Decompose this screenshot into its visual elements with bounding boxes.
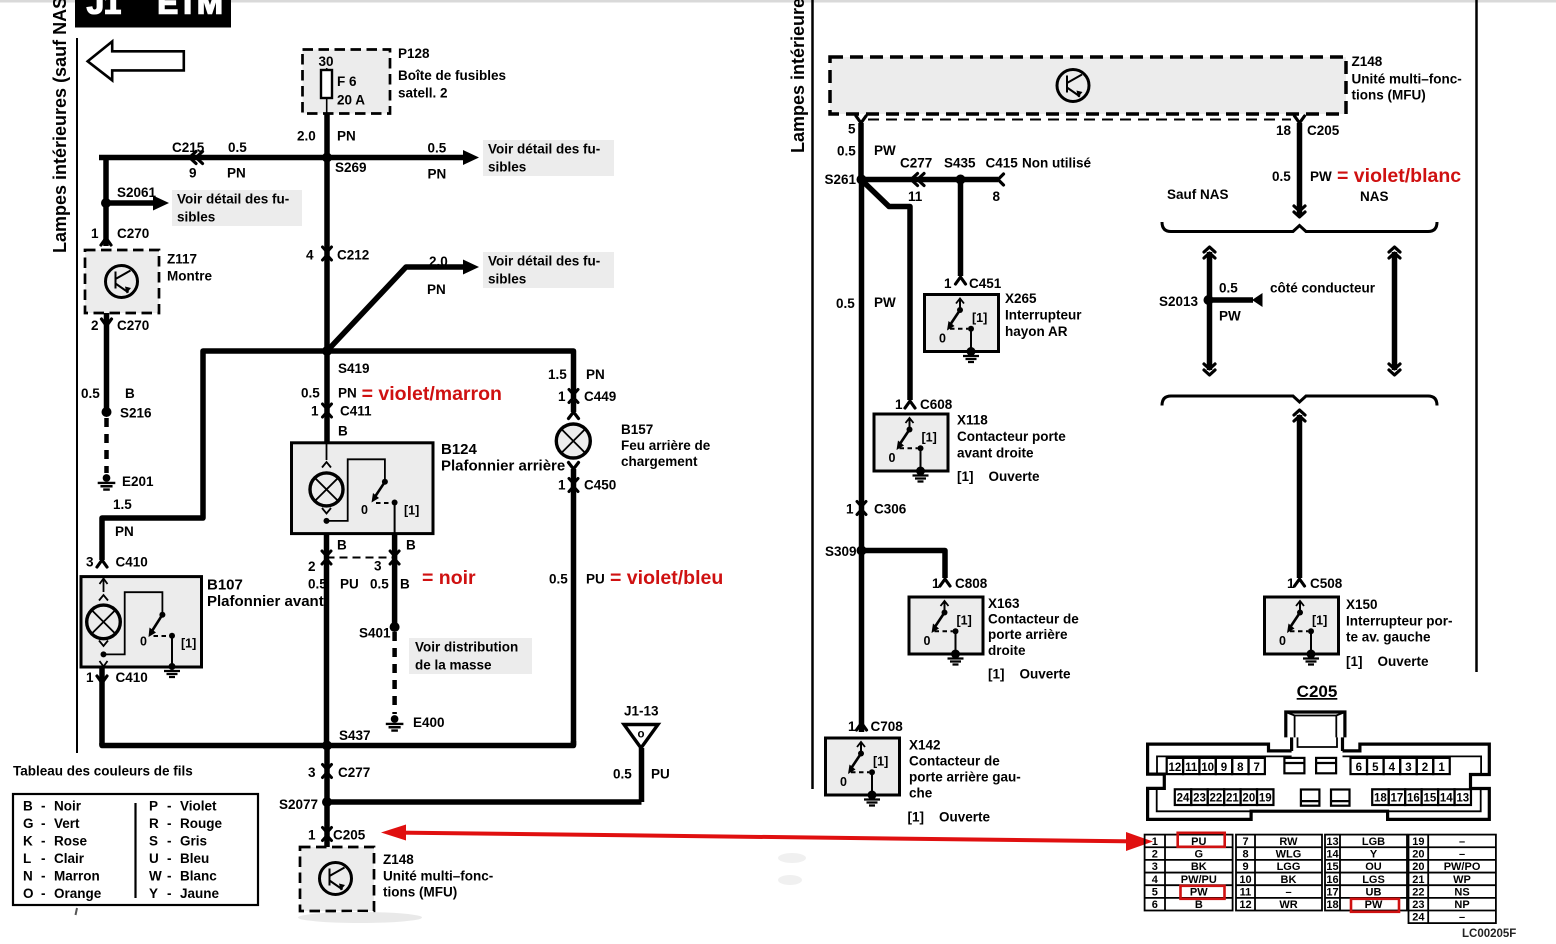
svg-text:Z148: Z148 bbox=[1352, 54, 1383, 69]
wire C449 to lamp B157 bbox=[571, 400, 577, 412]
svg-text:6: 6 bbox=[1152, 899, 1158, 911]
svg-text:1: 1 bbox=[895, 397, 903, 412]
svg-text:S2013: S2013 bbox=[1159, 294, 1199, 309]
svg-text:C411: C411 bbox=[340, 404, 372, 419]
switch box X142 (Contacteur de porte arriere gauche) bbox=[826, 738, 900, 795]
wire S435 down to X265 bbox=[958, 180, 964, 277]
wire S2061 down to connector C270 pin 1 bbox=[103, 203, 109, 246]
svg-text:3: 3 bbox=[1405, 762, 1411, 774]
svg-text:5: 5 bbox=[848, 122, 856, 137]
svg-text:17: 17 bbox=[1391, 793, 1404, 805]
svg-text:S2077: S2077 bbox=[279, 797, 318, 812]
right section right border rule bbox=[1475, 0, 1478, 672]
svg-text:LGS: LGS bbox=[1362, 874, 1385, 886]
svg-text:E400: E400 bbox=[413, 715, 445, 730]
svg-text:J1-13: J1-13 bbox=[624, 704, 659, 719]
svg-text:24: 24 bbox=[1177, 793, 1190, 805]
connector C708 pin 1 bbox=[857, 723, 867, 730]
svg-text:0.5: 0.5 bbox=[370, 577, 389, 592]
svg-text:F 6: F 6 bbox=[337, 74, 357, 89]
svg-text:Montre: Montre bbox=[167, 269, 212, 284]
wire bracket to X150 (C508) bbox=[1294, 410, 1305, 421]
svg-text:5: 5 bbox=[1372, 762, 1379, 774]
svg-text:ETM: ETM bbox=[157, 0, 222, 21]
B107 internal lamp bbox=[103, 579, 105, 592]
wire pin5 down to S261 (0.5 PW) bbox=[858, 123, 864, 180]
svg-text:PW: PW bbox=[874, 295, 896, 310]
svg-text:C270: C270 bbox=[117, 226, 149, 241]
svg-text:3: 3 bbox=[308, 765, 316, 780]
svg-text:-: - bbox=[167, 869, 172, 884]
svg-text:1: 1 bbox=[848, 719, 856, 734]
svg-text:C410: C410 bbox=[116, 670, 148, 685]
svg-text:21: 21 bbox=[1412, 874, 1424, 886]
wire S261 right through C277 / S435 to C415 bbox=[862, 177, 999, 183]
note box: Voir detail des fusibles (bottom) bbox=[483, 252, 614, 288]
svg-text:PW: PW bbox=[1190, 886, 1208, 898]
lamp unit B124 Plafonnier arriere bbox=[292, 443, 434, 534]
connector C410 pin 3 bbox=[97, 560, 107, 567]
wire S419 down to B124 (0.5 PN) bbox=[324, 351, 330, 443]
svg-text:2: 2 bbox=[1422, 762, 1428, 774]
svg-text:20: 20 bbox=[1242, 793, 1255, 805]
svg-text:20 A: 20 A bbox=[337, 93, 365, 108]
svg-text:-: - bbox=[41, 834, 46, 849]
svg-text:0: 0 bbox=[1279, 634, 1286, 648]
svg-text:14: 14 bbox=[1440, 793, 1453, 805]
svg-text:30: 30 bbox=[318, 54, 333, 69]
svg-text:C215: C215 bbox=[172, 140, 205, 155]
svg-text:13: 13 bbox=[1326, 836, 1338, 848]
svg-text:S437: S437 bbox=[339, 728, 371, 743]
svg-text:16: 16 bbox=[1407, 793, 1420, 805]
svg-text:E201: E201 bbox=[122, 474, 154, 489]
svg-text:C212: C212 bbox=[337, 248, 369, 263]
X142 (Contacteur de porte arriere gauche) internal contacts bbox=[860, 743, 862, 753]
clock unit Z117 Montre bbox=[85, 250, 159, 313]
svg-text:[1] Ouverte: [1] Ouverte bbox=[908, 810, 991, 825]
svg-text:PU: PU bbox=[586, 572, 605, 587]
svg-text:0.5: 0.5 bbox=[549, 572, 568, 587]
wire S261 diagonal to X118 drop bbox=[862, 180, 911, 400]
svg-text:te av. gauche: te av. gauche bbox=[1346, 630, 1431, 645]
svg-text:18: 18 bbox=[1374, 793, 1387, 805]
svg-text:B: B bbox=[400, 577, 410, 592]
svg-text:Z117: Z117 bbox=[167, 252, 197, 267]
svg-text:[1]: [1] bbox=[404, 504, 419, 518]
svg-text:11: 11 bbox=[1185, 762, 1198, 774]
X163 (Contacteur de porte arriere droite) internal contacts bbox=[944, 602, 946, 612]
svg-text:C205: C205 bbox=[333, 828, 366, 843]
svg-text:1: 1 bbox=[1438, 762, 1445, 774]
B124 pin wires below bbox=[324, 534, 330, 746]
svg-text:Lampes intérieures: Lampes intérieures bbox=[788, 0, 808, 153]
svg-text:1: 1 bbox=[558, 478, 566, 493]
svg-text:PN: PN bbox=[227, 166, 246, 181]
svg-text:0: 0 bbox=[889, 451, 896, 465]
svg-text:C410: C410 bbox=[116, 555, 148, 570]
svg-text:3: 3 bbox=[86, 555, 94, 570]
title block J1 ETM bbox=[75, 0, 231, 28]
svg-text:PW/PO: PW/PO bbox=[1444, 861, 1481, 873]
svg-text:1: 1 bbox=[86, 670, 94, 685]
svg-text:PN: PN bbox=[428, 167, 447, 182]
bottom bus wire (B107/B157 to S437) bbox=[102, 741, 574, 746]
svg-text:S2061: S2061 bbox=[117, 185, 157, 200]
svg-text:X163: X163 bbox=[988, 596, 1020, 611]
svg-text:P128: P128 bbox=[398, 46, 430, 61]
svg-text:4: 4 bbox=[1152, 874, 1159, 886]
svg-text:B157: B157 bbox=[621, 422, 653, 437]
svg-text:2: 2 bbox=[91, 318, 99, 333]
C205 pin table bbox=[1145, 835, 1496, 924]
svg-text:Voir détail des fu-: Voir détail des fu- bbox=[177, 192, 289, 207]
svg-text:PU: PU bbox=[340, 577, 359, 592]
svg-text:= violet/bleu: = violet/bleu bbox=[610, 567, 723, 589]
svg-text:Tableau des couleurs de fils: Tableau des couleurs de fils bbox=[13, 764, 193, 779]
big hollow arrow pointing left bbox=[88, 42, 184, 81]
connector C205 pin 1 bbox=[323, 828, 332, 841]
svg-text:Blanc: Blanc bbox=[180, 869, 217, 884]
node S2013 with stub arrow (cote conducteur) bbox=[1204, 295, 1214, 305]
svg-text:10: 10 bbox=[1239, 874, 1251, 886]
svg-text:0: 0 bbox=[840, 775, 847, 789]
switch box X118 (Contacteur porte avant droite) bbox=[874, 414, 948, 471]
svg-text:9: 9 bbox=[189, 166, 197, 181]
svg-text:Bleu: Bleu bbox=[180, 851, 209, 866]
svg-text:Unité multi–fonc-: Unité multi–fonc- bbox=[1352, 72, 1462, 87]
svg-text:1: 1 bbox=[558, 389, 566, 404]
svg-text:2.0: 2.0 bbox=[429, 254, 448, 269]
arrow wire to "Voir detail des fusibles" (top) bbox=[327, 155, 463, 161]
node S2077 with wire to J1-13 drop bbox=[322, 797, 332, 807]
svg-text:0.5: 0.5 bbox=[837, 144, 856, 159]
svg-text:Y: Y bbox=[1370, 848, 1378, 860]
stray tick mark bbox=[76, 908, 78, 915]
connector C306 pin 1 (inline) bbox=[857, 502, 866, 515]
node S2061 with arrow to note bbox=[101, 198, 111, 208]
svg-text:hayon AR: hayon AR bbox=[1005, 324, 1068, 339]
svg-text:12: 12 bbox=[1239, 899, 1251, 911]
ground symbol of X163 (Contacteur de porte arriere droite) bbox=[951, 650, 960, 659]
svg-text:LC00205F: LC00205F bbox=[1462, 928, 1516, 940]
svg-text:PW: PW bbox=[1310, 169, 1332, 184]
svg-text:8: 8 bbox=[1237, 762, 1244, 774]
svg-text:0: 0 bbox=[939, 332, 946, 346]
connector C212 pin 4 bbox=[323, 247, 332, 260]
svg-text:C306: C306 bbox=[874, 502, 907, 517]
svg-text:Sauf NAS: Sauf NAS bbox=[1167, 187, 1229, 202]
svg-text:S435: S435 bbox=[944, 156, 976, 171]
svg-text:G: G bbox=[1195, 848, 1204, 860]
svg-text:PW: PW bbox=[1219, 309, 1241, 324]
svg-text:[1] Ouverte: [1] Ouverte bbox=[957, 469, 1040, 484]
X265 (Interrupteur hayon AR) internal contacts bbox=[959, 300, 961, 310]
svg-text:X118: X118 bbox=[957, 413, 988, 428]
svg-text:B: B bbox=[1195, 899, 1203, 911]
connector C411 pin 1 bbox=[323, 404, 332, 417]
svg-text:NP: NP bbox=[1454, 899, 1469, 911]
svg-text:U: U bbox=[149, 851, 159, 866]
switch box X265 (Interrupteur hayon AR) bbox=[925, 295, 999, 352]
svg-text:22: 22 bbox=[1412, 886, 1424, 898]
switch box X163 (Contacteur de porte arriere droite) bbox=[909, 597, 983, 654]
svg-text:S216: S216 bbox=[120, 406, 152, 421]
ground symbol of X142 (Contacteur de porte arriere gauche) bbox=[868, 791, 877, 800]
svg-text:Lampes intérieures (sauf NAS): Lampes intérieures (sauf NAS) bbox=[50, 0, 70, 253]
ground symbol of X118 (Contacteur porte avant droite) bbox=[916, 467, 925, 476]
svg-text:WR: WR bbox=[1279, 899, 1297, 911]
svg-text:0.5: 0.5 bbox=[228, 140, 247, 155]
svg-text:Interrupteur por-: Interrupteur por- bbox=[1346, 614, 1453, 629]
svg-text:C415: C415 bbox=[986, 156, 1019, 171]
svg-text:1: 1 bbox=[846, 502, 854, 517]
svg-text:Plafonnier arrière: Plafonnier arrière bbox=[441, 458, 565, 475]
svg-text:Marron: Marron bbox=[54, 869, 100, 884]
svg-text:C277: C277 bbox=[900, 156, 932, 171]
B124 internal switch bbox=[327, 459, 385, 521]
svg-text:WP: WP bbox=[1453, 874, 1471, 886]
svg-text:porte arrière gau-: porte arrière gau- bbox=[909, 770, 1021, 785]
connector C415 pin 8 (unused end) bbox=[998, 174, 1004, 185]
svg-text:P: P bbox=[149, 799, 158, 814]
svg-text:1: 1 bbox=[1152, 836, 1158, 848]
svg-text:X265: X265 bbox=[1005, 291, 1037, 306]
ground E201 bbox=[103, 474, 111, 482]
svg-text:19: 19 bbox=[1259, 793, 1272, 805]
svg-text:15: 15 bbox=[1423, 793, 1436, 805]
svg-text:C450: C450 bbox=[584, 478, 616, 493]
svg-text:15: 15 bbox=[1326, 861, 1338, 873]
Z148 pin 5 connector bbox=[856, 116, 866, 123]
wire S419 top run to B157 branch bbox=[327, 351, 574, 398]
svg-text:1: 1 bbox=[91, 226, 99, 241]
svg-text:1: 1 bbox=[1287, 576, 1295, 591]
svg-text:NS: NS bbox=[1454, 886, 1469, 898]
svg-text:[1]: [1] bbox=[922, 431, 937, 445]
svg-text:porte arrière: porte arrière bbox=[988, 627, 1068, 642]
connector C411 pins 2 and 3 (dashed link) bbox=[327, 557, 395, 559]
svg-text:de la masse: de la masse bbox=[415, 658, 492, 673]
C205 pin cavities row 1 bbox=[1167, 758, 1450, 774]
svg-text:S269: S269 bbox=[335, 160, 367, 175]
switch box X150 (Interrupteur porte av. gauche) bbox=[1265, 597, 1339, 654]
svg-text:C451: C451 bbox=[969, 276, 1002, 291]
svg-text:9: 9 bbox=[1221, 762, 1227, 774]
svg-text:X150: X150 bbox=[1346, 597, 1378, 612]
B107 internal ground bbox=[169, 663, 176, 670]
svg-text:BK: BK bbox=[1281, 874, 1297, 886]
svg-text:18: 18 bbox=[1276, 123, 1292, 138]
svg-text:sibles: sibles bbox=[488, 272, 526, 287]
svg-text:Y: Y bbox=[149, 886, 158, 901]
svg-text:S: S bbox=[149, 834, 158, 849]
ground E400 bbox=[391, 715, 399, 723]
svg-text:0.5: 0.5 bbox=[428, 141, 447, 156]
wire S437 down to Z148 via C277/S2077/C205 bbox=[324, 746, 330, 848]
svg-text:7: 7 bbox=[1254, 762, 1260, 774]
svg-text:0: 0 bbox=[361, 503, 368, 517]
svg-text:22: 22 bbox=[1210, 793, 1223, 805]
svg-text:-: - bbox=[41, 799, 46, 814]
svg-text:B: B bbox=[337, 538, 347, 553]
left section border rule bbox=[76, 38, 78, 753]
svg-text:20: 20 bbox=[1412, 861, 1424, 873]
svg-text:PU: PU bbox=[651, 767, 670, 782]
lamp unit B107 Plafonnier avant bbox=[81, 577, 202, 667]
svg-text:L: L bbox=[23, 851, 31, 866]
svg-text:che: che bbox=[909, 786, 933, 801]
svg-text:10: 10 bbox=[1201, 762, 1214, 774]
svg-text:-: - bbox=[41, 816, 46, 831]
connector C270 pin 1 bbox=[101, 238, 111, 245]
svg-text:-: - bbox=[41, 869, 46, 884]
svg-text:o: o bbox=[637, 729, 644, 741]
svg-text:LGB: LGB bbox=[1362, 836, 1385, 848]
node S401 bbox=[390, 622, 400, 632]
svg-text:W: W bbox=[149, 869, 162, 884]
svg-text:17: 17 bbox=[1326, 886, 1338, 898]
svg-text:WLG: WLG bbox=[1276, 848, 1302, 860]
svg-text:[1] Ouverte: [1] Ouverte bbox=[1346, 654, 1429, 669]
svg-text:0.5: 0.5 bbox=[1272, 169, 1291, 184]
dashed wire S401 to ground E400 bbox=[392, 632, 397, 714]
svg-text:PW: PW bbox=[874, 143, 896, 158]
svg-text:PN: PN bbox=[115, 524, 134, 539]
svg-text:Jaune: Jaune bbox=[180, 886, 220, 901]
svg-text:PW: PW bbox=[1365, 899, 1383, 911]
MFU unit Z148 (top bar) bbox=[830, 57, 1346, 114]
svg-text:1: 1 bbox=[311, 404, 319, 419]
note box: Voir detail des fusibles (top) bbox=[483, 140, 614, 176]
svg-text:0.5: 0.5 bbox=[1219, 281, 1238, 296]
connector C270 pin 2 bbox=[104, 313, 110, 410]
B124 internal lamp bbox=[326, 443, 328, 460]
svg-text:Clair: Clair bbox=[54, 851, 85, 866]
svg-text:[1] Ouverte: [1] Ouverte bbox=[988, 667, 1071, 682]
svg-text:S261: S261 bbox=[825, 172, 857, 187]
svg-text:-: - bbox=[167, 799, 172, 814]
svg-text:-: - bbox=[167, 816, 172, 831]
wire horizontal from corner to S269 with connector C215 bbox=[99, 158, 327, 204]
svg-text:sibles: sibles bbox=[488, 160, 526, 175]
svg-text:Contacteur de: Contacteur de bbox=[988, 612, 1079, 627]
svg-text:Contacteur de: Contacteur de bbox=[909, 754, 1000, 769]
svg-text:Vert: Vert bbox=[54, 816, 80, 831]
svg-text:Noir: Noir bbox=[54, 799, 82, 814]
page top grey strip bbox=[0, 0, 1556, 3]
X118 (Contacteur porte avant droite) internal contacts bbox=[909, 419, 911, 429]
svg-text:0.5: 0.5 bbox=[301, 386, 320, 401]
node S419 bbox=[322, 346, 332, 356]
svg-text:-: - bbox=[167, 851, 172, 866]
svg-text:24: 24 bbox=[1412, 912, 1425, 924]
svg-text:Non utilisé: Non utilisé bbox=[1022, 156, 1091, 171]
svg-text:Feu arrière de: Feu arrière de bbox=[621, 438, 711, 453]
svg-text:Rouge: Rouge bbox=[180, 816, 222, 831]
connector C808 pin 1 bbox=[940, 579, 950, 586]
node S437 bbox=[322, 741, 332, 751]
svg-text:4: 4 bbox=[306, 248, 314, 263]
svg-text:PN: PN bbox=[338, 386, 357, 401]
B107 internal switch bbox=[104, 592, 163, 654]
svg-text:–: – bbox=[1285, 886, 1291, 898]
connector C410 pin 1 bbox=[97, 676, 107, 683]
svg-text:R: R bbox=[149, 816, 159, 831]
svg-text:Z148: Z148 bbox=[383, 852, 414, 867]
svg-text:0.5: 0.5 bbox=[613, 767, 632, 782]
svg-text:avant droite: avant droite bbox=[957, 446, 1034, 461]
svg-text:C508: C508 bbox=[1310, 576, 1343, 591]
svg-text:1: 1 bbox=[932, 576, 940, 591]
svg-text:11: 11 bbox=[1240, 886, 1252, 898]
ground symbol of X265 (Interrupteur hayon AR) bbox=[967, 347, 976, 356]
svg-text:= noir: = noir bbox=[422, 567, 476, 589]
svg-text:B: B bbox=[23, 799, 33, 814]
svg-text:sibles: sibles bbox=[177, 210, 215, 225]
note box: Voir distribution de la masse bbox=[409, 638, 532, 674]
svg-text:RW: RW bbox=[1279, 836, 1298, 848]
svg-text:B: B bbox=[125, 386, 135, 401]
svg-text:16: 16 bbox=[1326, 874, 1338, 886]
svg-text:C277: C277 bbox=[338, 765, 370, 780]
Z148 pin 18 / C205 wire down (0.5 PW) bbox=[1295, 116, 1305, 123]
svg-text:-: - bbox=[167, 834, 172, 849]
C205 connector housing outline bbox=[1148, 712, 1490, 819]
svg-text:3: 3 bbox=[1152, 861, 1158, 873]
fuse box P128 (Boite de fusibles satell. 2) bbox=[303, 50, 391, 114]
svg-text:C708: C708 bbox=[871, 719, 904, 734]
NAS variant bracket (top) bbox=[1162, 222, 1437, 232]
svg-text:droite: droite bbox=[988, 643, 1026, 658]
svg-text:-: - bbox=[167, 886, 172, 901]
svg-text:Violet: Violet bbox=[180, 799, 217, 814]
svg-text:–: – bbox=[1459, 836, 1465, 848]
connector C215 (inline, 9) bbox=[190, 152, 203, 164]
svg-text:Contacteur porte: Contacteur porte bbox=[957, 429, 1066, 444]
svg-text:Gris: Gris bbox=[180, 834, 207, 849]
svg-text:N: N bbox=[23, 869, 33, 884]
svg-text:6: 6 bbox=[1356, 762, 1362, 774]
wire B107 pin3 up-right-up to node S419 (1.5 PN) bbox=[102, 351, 327, 560]
right section left border rule bbox=[811, 0, 814, 789]
svg-text:[1]: [1] bbox=[957, 614, 972, 628]
svg-text:21: 21 bbox=[1226, 793, 1239, 805]
svg-text:23: 23 bbox=[1412, 899, 1424, 911]
svg-text:2.0: 2.0 bbox=[297, 129, 316, 144]
X150 (Interrupteur porte av. gauche) internal contacts bbox=[1299, 602, 1301, 612]
svg-text:14: 14 bbox=[1326, 848, 1339, 860]
svg-text:Boîte de fusibles: Boîte de fusibles bbox=[398, 68, 506, 83]
B107 bottom pin wire bbox=[99, 667, 105, 746]
svg-text:Voir détail des fu-: Voir détail des fu- bbox=[488, 254, 600, 269]
svg-text:B: B bbox=[406, 538, 416, 553]
svg-text:UB: UB bbox=[1366, 886, 1382, 898]
svg-text:chargement: chargement bbox=[621, 454, 698, 469]
svg-text:7: 7 bbox=[1242, 836, 1248, 848]
svg-text:C205: C205 bbox=[1307, 123, 1340, 138]
svg-text:PN: PN bbox=[337, 129, 356, 144]
connector C277 pin 3 bbox=[323, 765, 332, 778]
svg-text:[1]: [1] bbox=[1312, 614, 1327, 628]
svg-text:G: G bbox=[23, 816, 34, 831]
svg-text:Rose: Rose bbox=[54, 834, 88, 849]
svg-text:OU: OU bbox=[1365, 861, 1382, 873]
faint scan artifacts bbox=[298, 912, 422, 923]
svg-text:PN: PN bbox=[586, 367, 605, 382]
svg-text:3: 3 bbox=[374, 559, 382, 574]
node S216 bbox=[102, 407, 112, 417]
